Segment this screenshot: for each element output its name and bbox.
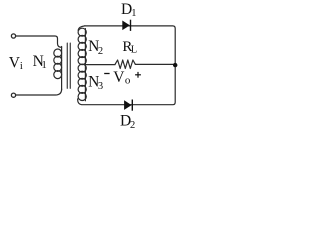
transformer primary coil N1	[61, 47, 63, 91]
transformer core	[67, 43, 70, 88]
label Vo	[113, 69, 131, 87]
input terminal top	[11, 34, 15, 38]
input terminal bottom	[11, 93, 15, 97]
transformer secondary coil N3	[78, 64, 86, 72]
wire bottom-left	[16, 89, 62, 95]
transformer secondary coil N2	[78, 26, 85, 30]
svg-text:3: 3	[98, 81, 103, 92]
wire top-left	[16, 36, 62, 47]
label D1	[121, 1, 136, 19]
label RL	[122, 39, 137, 56]
diode D2	[124, 100, 132, 111]
label minus sign	[104, 73, 109, 75]
wire secondary top to D1 and right corner	[85, 26, 175, 64]
label N2	[88, 38, 103, 57]
label D2	[120, 113, 135, 131]
wire resistor to junction	[135, 63, 175, 65]
svg-text:1: 1	[131, 8, 136, 19]
label plus sign	[135, 72, 141, 78]
diode D1	[122, 20, 130, 31]
svg-text:2: 2	[98, 46, 103, 57]
svg-text:i: i	[20, 61, 23, 72]
svg-text:2: 2	[130, 120, 135, 131]
resistor RL zigzag	[115, 60, 135, 69]
svg-text:V: V	[113, 69, 125, 86]
label N1	[33, 53, 47, 71]
svg-text:L: L	[131, 45, 137, 56]
junction node dot	[173, 63, 177, 67]
wire secondary bottom to D2 and right corner	[78, 66, 176, 105]
label N3	[88, 74, 103, 93]
wire center tap to resistor	[86, 64, 116, 66]
label Vi	[9, 54, 23, 72]
svg-text:o: o	[125, 74, 131, 86]
svg-text:1: 1	[42, 60, 47, 71]
